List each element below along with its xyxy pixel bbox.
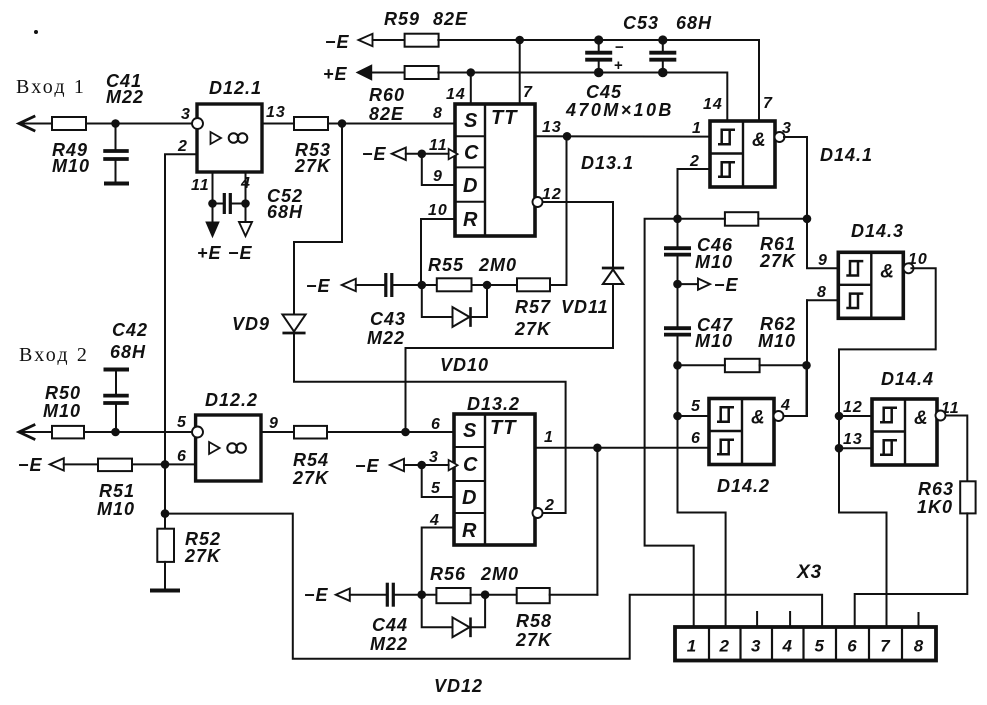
svg-text:D14.3: D14.3 <box>851 221 904 241</box>
svg-text:D14.4: D14.4 <box>881 369 934 389</box>
output circle D14.2 pin4 <box>774 411 784 421</box>
resistor R55 <box>437 278 472 291</box>
flip-flop D13.2 <box>454 414 535 545</box>
svg-text:5: 5 <box>431 480 441 497</box>
junction D13.1 pin14 tap <box>467 68 476 77</box>
svg-text:68H: 68H <box>110 342 146 362</box>
svg-text:&: & <box>914 408 929 429</box>
wire R56 to R58 <box>471 594 517 596</box>
resistor R62 <box>725 359 760 372</box>
svg-text:6: 6 <box>847 637 857 656</box>
svg-text:27K: 27K <box>515 630 553 650</box>
output circle D14.3 pin10 <box>904 263 914 273</box>
svg-text:5: 5 <box>691 398 701 415</box>
svg-text:D: D <box>463 175 478 197</box>
resistor R56 <box>436 588 470 603</box>
wire C44 to R56 <box>394 594 436 596</box>
svg-text:3: 3 <box>181 106 191 123</box>
resistor R60 <box>405 66 439 79</box>
svg-text:C44: C44 <box>372 615 408 635</box>
junction R61 left <box>673 215 682 224</box>
wire VD11 down-left to S junction <box>406 284 614 432</box>
svg-text:27K: 27K <box>514 319 552 339</box>
ground <box>150 589 180 593</box>
diode VD12 bypass loop <box>422 595 453 628</box>
wire D14.2 output up to R62 <box>783 365 806 416</box>
svg-text:M10: M10 <box>97 499 135 519</box>
wire R58 to pin1 riser <box>550 594 598 596</box>
resistor R59 <box>405 34 439 47</box>
junction D13.1 pin7 tap <box>515 36 524 45</box>
svg-text:4: 4 <box>240 175 251 192</box>
svg-text:4: 4 <box>429 512 440 529</box>
wire R63 to X3 pin6 <box>855 513 968 627</box>
svg-text:5: 5 <box>177 414 187 431</box>
wire D14.3 output loop to D14.4 <box>839 268 936 627</box>
wire D12.1 pin2 feedback down-left <box>165 154 197 528</box>
wire D14.1 output to D14.3 pin9 <box>784 137 838 268</box>
svg-text:R51: R51 <box>99 481 135 501</box>
svg-text:D13.2: D13.2 <box>467 394 520 414</box>
svg-text:VD12: VD12 <box>434 676 483 696</box>
wire D13.1 pin10 R input <box>421 219 455 285</box>
wire D13.2 pin5 D input <box>422 465 454 497</box>
svg-text:27K: 27K <box>294 156 332 176</box>
svg-text:D14.2: D14.2 <box>717 476 770 496</box>
svg-text:2: 2 <box>544 497 555 514</box>
svg-text:Вход 2: Вход 2 <box>19 344 89 366</box>
resistor R49 <box>52 117 86 130</box>
wire D13.1 pin9 D input <box>422 154 455 185</box>
svg-text:7: 7 <box>880 637 891 656</box>
wire X3 pin4 stub <box>789 612 791 627</box>
svg-text:9: 9 <box>818 252 828 269</box>
wire D13.2 pin1 output <box>535 447 709 449</box>
svg-text:470M×10B: 470M×10B <box>565 100 674 120</box>
svg-text:−E: −E <box>355 456 380 476</box>
svg-text:&: & <box>880 261 895 282</box>
svg-text:2: 2 <box>718 637 729 656</box>
wire D12.1 pins 11 and 4 stubs <box>212 172 214 204</box>
svg-text:R: R <box>463 209 478 231</box>
svg-text:4: 4 <box>781 637 792 656</box>
svg-text:1: 1 <box>692 120 702 137</box>
resistor R58 <box>517 588 550 603</box>
power -E arrow right <box>678 283 699 285</box>
stray mark <box>34 30 38 34</box>
svg-text:M10: M10 <box>43 401 81 421</box>
svg-text:+E: +E <box>197 243 222 263</box>
svg-text:−E: −E <box>304 585 329 605</box>
capacitor C53 second section <box>658 35 667 44</box>
svg-text:R56: R56 <box>430 564 466 584</box>
wire D14.4 output to R63 <box>946 416 968 482</box>
output circle D14.4 pin11 <box>936 411 946 421</box>
svg-text:&: & <box>751 408 766 429</box>
svg-text:27K: 27K <box>759 251 797 271</box>
svg-text:D12.1: D12.1 <box>209 78 262 98</box>
wire D13.1 pin14 stub <box>470 73 472 105</box>
resistor R57 <box>517 278 550 291</box>
junction D14.2 pin5 <box>673 412 682 421</box>
svg-text:7: 7 <box>523 84 533 101</box>
svg-text:5: 5 <box>814 637 824 656</box>
svg-text:14: 14 <box>446 86 466 103</box>
junction R62 left <box>673 361 682 370</box>
wire pin13 down to R57 <box>566 136 568 285</box>
wire VD9 to D13.2 pin2 loop <box>294 334 566 513</box>
wire D13.1 pin7 stub <box>519 40 521 104</box>
svg-text:VD11: VD11 <box>561 297 609 317</box>
svg-text:R63: R63 <box>918 479 954 499</box>
capacitor C41 <box>115 124 117 151</box>
svg-text:6: 6 <box>691 430 701 447</box>
wire R55 to R57 <box>472 284 518 286</box>
svg-text:TT: TT <box>490 417 517 439</box>
junction C41 tap <box>111 119 120 128</box>
junction R55 left <box>418 281 427 290</box>
svg-text:M10: M10 <box>695 331 733 351</box>
svg-text:D12.2: D12.2 <box>205 390 258 410</box>
resistor R50 <box>52 426 84 439</box>
power +E arrow down <box>212 204 214 223</box>
wire D13.2 pin4 R input <box>422 528 454 595</box>
svg-text:M10: M10 <box>52 156 90 176</box>
svg-text:R55: R55 <box>428 255 464 275</box>
resistor R54 <box>294 426 327 439</box>
svg-text:8: 8 <box>914 637 924 656</box>
svg-text:−E: −E <box>714 275 739 295</box>
svg-text:−E: −E <box>306 276 331 296</box>
capacitor C47 <box>664 326 691 330</box>
wire D14.4 pin12 stub <box>839 415 872 417</box>
svg-text:X3: X3 <box>796 562 822 583</box>
svg-text:9: 9 <box>433 168 443 185</box>
svg-text:R57: R57 <box>515 297 551 317</box>
logic gate D14.4 <box>872 399 937 465</box>
svg-text:D13.1: D13.1 <box>581 153 634 173</box>
svg-text:C45: C45 <box>586 82 622 102</box>
junction R56 left <box>417 590 426 599</box>
junction clock/D tie 2 <box>417 461 426 470</box>
svg-text:14: 14 <box>703 96 723 113</box>
svg-text:13: 13 <box>266 104 286 121</box>
output circle D13.2 pin2 <box>533 508 543 518</box>
resistor R63 <box>960 481 975 513</box>
junction clock/D tie <box>418 150 427 159</box>
wire pin1 down to R58 <box>596 448 598 595</box>
flip-flop D13.1 <box>455 104 535 236</box>
svg-text:S: S <box>464 110 478 132</box>
svg-text:27K: 27K <box>184 546 222 566</box>
wire R52 to ground <box>164 562 166 589</box>
svg-text:13: 13 <box>843 431 863 448</box>
junction R61 right <box>803 215 812 224</box>
svg-text:1: 1 <box>687 637 697 656</box>
svg-text:9: 9 <box>269 415 279 432</box>
svg-text:R60: R60 <box>369 85 405 105</box>
svg-text:12: 12 <box>542 186 562 203</box>
junction R53 output <box>338 119 347 128</box>
junction D14.4 pin12 <box>835 412 844 421</box>
svg-text:1K0: 1K0 <box>917 497 953 517</box>
svg-text:2: 2 <box>689 153 700 170</box>
svg-text:7: 7 <box>763 95 773 112</box>
junction pin11 <box>208 199 217 208</box>
capacitor C42 <box>104 368 130 372</box>
diode VD10 bypass loop <box>422 285 453 317</box>
junction -E tap <box>673 280 682 289</box>
junction R56 right <box>481 590 490 599</box>
svg-text:82E: 82E <box>433 9 468 29</box>
svg-text:6: 6 <box>431 416 441 433</box>
svg-text:1: 1 <box>544 429 554 446</box>
wire D14.1 pin2 column <box>678 169 711 248</box>
svg-text:D14.1: D14.1 <box>820 145 873 165</box>
svg-text:−E: −E <box>325 32 350 52</box>
junction pin4 <box>241 199 250 208</box>
wire R61 row <box>678 218 725 220</box>
wire D14.3 pin8 from R62 <box>807 299 838 301</box>
wire D14.4 pin13 stub <box>839 447 872 449</box>
wire C46 to C47 <box>677 255 679 328</box>
capacitor C44 <box>386 583 389 607</box>
svg-text:82E: 82E <box>369 104 404 124</box>
resistor R52 <box>157 529 174 562</box>
svg-text:2M0: 2M0 <box>478 255 517 275</box>
junction lower tap <box>161 509 170 518</box>
svg-text:−E: −E <box>228 243 253 263</box>
svg-text:6: 6 <box>177 448 187 465</box>
svg-text:M10: M10 <box>758 331 796 351</box>
wire R57 to pin13 riser <box>550 284 567 286</box>
svg-text:C43: C43 <box>370 309 406 329</box>
logic gate D14.1 <box>710 121 775 187</box>
wire input 2 main line with arrow <box>19 425 34 439</box>
output circle D13.1 pin12 <box>533 197 543 207</box>
diode VD9 <box>282 315 305 332</box>
svg-text:3: 3 <box>751 637 761 656</box>
junction R62 right <box>802 361 811 370</box>
svg-text:&: & <box>752 130 767 151</box>
wire input 1 main line with arrow <box>19 117 34 131</box>
wire X3 pin8 stub <box>918 613 920 627</box>
svg-text:−E: −E <box>18 455 43 475</box>
capacitor C46 <box>664 246 691 250</box>
svg-text:TT: TT <box>491 107 518 129</box>
logic gate D14.3 <box>838 252 903 318</box>
svg-text:R59: R59 <box>384 9 420 29</box>
svg-text:+E: +E <box>323 64 348 84</box>
svg-text:10: 10 <box>428 202 448 219</box>
svg-text:27K: 27K <box>292 468 330 488</box>
wire D14.2 pin5 stub <box>678 415 710 417</box>
svg-text:−: − <box>615 39 625 56</box>
wire +E rail to D14.1 pin14 <box>438 73 727 122</box>
junction D13.2 S input <box>401 428 410 437</box>
wire C47 down to D14.2 pin5 <box>678 335 726 627</box>
svg-text:2M0: 2M0 <box>480 564 519 584</box>
svg-text:C: C <box>463 454 478 476</box>
svg-text:12: 12 <box>843 399 863 416</box>
svg-text:68H: 68H <box>267 202 303 222</box>
svg-text:−E: −E <box>362 144 387 164</box>
svg-text:C42: C42 <box>112 320 148 340</box>
svg-text:2: 2 <box>177 138 188 155</box>
svg-text:+: + <box>614 57 624 74</box>
svg-text:3: 3 <box>429 449 439 466</box>
svg-text:13: 13 <box>542 119 562 136</box>
capacitor C52 <box>213 203 225 205</box>
svg-text:VD10: VD10 <box>440 355 489 375</box>
wire pin12 to VD11 <box>543 202 614 267</box>
wire R62 row <box>678 364 725 366</box>
svg-text:R54: R54 <box>293 450 329 470</box>
output circle D14.1 pin3 <box>775 132 785 142</box>
svg-text:C53: C53 <box>623 13 659 33</box>
junction pin13 <box>563 132 572 141</box>
junction R55 right <box>483 281 492 290</box>
wire R53 junction down to VD9 <box>294 124 342 315</box>
resistor R51 <box>98 459 132 472</box>
wire C43 to R55 <box>393 284 437 286</box>
svg-text:11: 11 <box>191 177 210 194</box>
svg-text:VD9: VD9 <box>232 314 270 334</box>
wire R51 to D12.2 pin6 <box>132 463 196 465</box>
svg-text:R50: R50 <box>45 383 81 403</box>
svg-text:M22: M22 <box>367 328 405 348</box>
resistor R53 <box>294 117 328 130</box>
junction pin6 tie <box>161 460 170 469</box>
wire X3 pin3 stub <box>756 612 758 627</box>
logic gate D14.2 <box>709 399 774 465</box>
capacitor C43 <box>384 273 387 297</box>
svg-text:8: 8 <box>817 284 827 301</box>
svg-text:Вход 1: Вход 1 <box>16 76 86 98</box>
junction C42 tap <box>111 428 120 437</box>
svg-text:S: S <box>463 420 477 442</box>
power -E arrow down <box>245 204 247 223</box>
wire lower-left long run to X3 pin5 <box>165 514 822 659</box>
wire X3 pin1 branch <box>645 219 694 627</box>
diode VD11 <box>602 267 624 270</box>
svg-text:R: R <box>462 520 477 542</box>
wire D13.1 pin13 output <box>535 135 710 137</box>
svg-text:M22: M22 <box>370 634 408 654</box>
junction D14.4 pin13 <box>835 444 844 453</box>
junction pin1 <box>593 444 602 453</box>
svg-text:8: 8 <box>433 105 443 122</box>
svg-text:68H: 68H <box>676 13 712 33</box>
svg-text:M22: M22 <box>106 87 144 107</box>
svg-text:R58: R58 <box>516 611 552 631</box>
svg-text:M10: M10 <box>695 252 733 272</box>
wire -E rail to D14.1 pin7 <box>438 40 759 121</box>
svg-text:11: 11 <box>429 137 448 154</box>
svg-text:D: D <box>462 487 477 509</box>
svg-text:C: C <box>464 142 479 164</box>
resistor R61 <box>725 212 758 226</box>
